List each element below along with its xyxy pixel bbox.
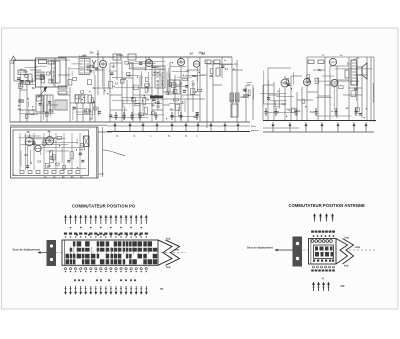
tuner small circle <box>25 74 29 78</box>
wire <box>188 69 200 71</box>
IF can 2 <box>79 59 90 75</box>
PO dots row 1 <box>76 234 78 236</box>
wire <box>336 66 338 118</box>
tube V8 <box>331 79 338 86</box>
wire <box>284 88 286 120</box>
if cluster 1 <box>94 107 97 110</box>
svg-text:MB: MB <box>341 284 345 288</box>
svg-text:bob.: bob. <box>344 264 349 267</box>
tube V5 <box>281 79 289 87</box>
bottom bus rail 2 left <box>10 124 107 126</box>
mixer cluster <box>81 91 84 94</box>
bottom bus rail 2 right <box>263 127 299 129</box>
wire <box>267 68 269 120</box>
svg-text:1M: 1M <box>131 98 134 100</box>
svg-text:10p: 10p <box>286 109 291 111</box>
wire <box>133 67 146 69</box>
wire <box>213 84 222 86</box>
wire <box>69 87 71 122</box>
wire <box>103 68 105 95</box>
wire <box>337 79 349 81</box>
wire long <box>150 98 205 100</box>
transistor q1 <box>92 60 96 64</box>
wire <box>116 57 118 80</box>
wire <box>152 74 163 76</box>
speaker LS1 <box>357 67 362 75</box>
wire <box>200 74 207 76</box>
wire <box>324 57 326 120</box>
out cluster 2 <box>351 91 356 97</box>
svg-text:68p: 68p <box>170 109 175 111</box>
power box bottom contact row <box>20 171 24 174</box>
ANT switch band outline <box>309 239 337 265</box>
power box inner outline <box>13 130 89 175</box>
svg-text:22n: 22n <box>23 71 28 73</box>
svg-text:22n: 22n <box>89 118 94 120</box>
svg-text:Tous: Tous <box>251 126 257 128</box>
if cluster 2 <box>144 84 149 86</box>
wire <box>245 85 247 122</box>
wire <box>330 65 349 67</box>
wire <box>301 87 303 120</box>
svg-text:C12: C12 <box>193 92 198 94</box>
PO chevron break <box>158 240 172 265</box>
wire <box>263 103 285 105</box>
wire <box>30 69 41 71</box>
rectifier disc <box>35 145 41 151</box>
ANT band contact cluster <box>314 245 334 259</box>
ANT bottom arrow row <box>313 283 315 292</box>
svg-text:1M: 1M <box>123 79 126 81</box>
IF can 1 <box>36 95 43 112</box>
resistor col E <box>216 68 220 76</box>
svg-text:1n5: 1n5 <box>90 66 95 68</box>
wire <box>297 99 313 101</box>
tuner cluster a <box>46 72 49 75</box>
wire <box>13 59 70 61</box>
hatch box C <box>55 100 67 110</box>
ANT top arrow row <box>314 214 316 222</box>
svg-text:10p: 10p <box>21 83 26 85</box>
power box internal vertical wires <box>19 133 21 170</box>
wire <box>291 75 302 77</box>
wire <box>313 69 325 71</box>
wire <box>20 109 36 111</box>
top bus wire <box>58 56 232 58</box>
wire <box>121 60 123 122</box>
wire <box>268 67 291 69</box>
wire <box>318 95 330 97</box>
wire <box>139 75 141 122</box>
wire <box>162 57 164 122</box>
power box wire to right <box>98 131 112 133</box>
wire <box>221 57 223 78</box>
power box outer outline <box>11 127 99 178</box>
wire <box>349 87 362 89</box>
wire <box>110 109 127 111</box>
wire <box>132 62 134 122</box>
wire <box>366 57 368 120</box>
PO bottom arrow row <box>65 286 67 294</box>
bottom bus rail 1 <box>10 121 250 123</box>
wire <box>20 89 27 91</box>
svg-text:C12: C12 <box>37 161 42 163</box>
wire <box>370 57 372 122</box>
input wire loop <box>14 61 35 82</box>
wire <box>58 94 70 96</box>
svg-text:COMMUTATEUR POSITION ANTENNE: COMMUTATEUR POSITION ANTENNE <box>289 203 366 208</box>
svg-text:C12: C12 <box>310 112 315 114</box>
wire <box>180 67 182 122</box>
wire <box>95 87 110 89</box>
wire <box>95 69 104 71</box>
bottom bus rail 2 <box>107 125 250 127</box>
wire <box>329 66 331 120</box>
power box parts <box>52 155 55 160</box>
resistor pair striped <box>230 93 234 102</box>
wire <box>373 57 375 122</box>
tube V4 <box>193 61 199 67</box>
wire <box>273 82 275 120</box>
svg-text:bob.: bob. <box>166 237 171 240</box>
wire <box>199 57 201 122</box>
wire <box>126 80 128 103</box>
wire <box>361 76 363 118</box>
wire <box>343 94 362 96</box>
wire <box>163 91 175 93</box>
wire <box>236 60 238 122</box>
coil L1 <box>18 70 26 75</box>
wire <box>348 57 350 120</box>
wire <box>263 84 274 86</box>
wire <box>170 84 181 86</box>
bottom bus rail 1 right <box>263 120 376 122</box>
wire <box>46 95 48 122</box>
resistor R1 <box>28 74 32 82</box>
svg-text:Sens de déplacement: Sens de déplacement <box>13 248 41 252</box>
wire <box>157 80 159 110</box>
wire <box>181 94 200 96</box>
PO mounting bracket <box>47 240 57 266</box>
wire <box>325 84 337 86</box>
output transformer <box>351 60 357 85</box>
tube V3 <box>177 58 184 65</box>
wire <box>296 92 298 120</box>
svg-text:4f: 4f <box>322 278 324 281</box>
wire <box>19 78 21 122</box>
tube V2 <box>145 59 152 66</box>
wire <box>94 75 96 122</box>
wire <box>163 104 170 106</box>
IF can 4 <box>168 80 180 94</box>
wire <box>307 91 318 93</box>
wire <box>122 77 133 79</box>
svg-text:22n: 22n <box>90 53 95 55</box>
wire <box>231 57 233 118</box>
wire <box>355 74 367 76</box>
ANT pointer arrow <box>275 249 293 251</box>
svg-text:bob.: bob. <box>166 266 171 269</box>
tube V1 <box>99 60 106 67</box>
wire <box>110 62 122 64</box>
right caps <box>265 108 267 111</box>
wire <box>152 109 163 111</box>
svg-text:22n: 22n <box>24 155 29 157</box>
filter box sections <box>44 95 53 112</box>
ANT band top circles <box>311 240 314 243</box>
resistor pair B <box>58 86 67 89</box>
det cluster 1 <box>173 89 177 93</box>
capacitor marks row mid <box>115 112 117 115</box>
svg-text:Sens de déplacement: Sens de déplacement <box>247 247 273 250</box>
svg-text:bob.: bob. <box>345 236 350 239</box>
svg-text:gamme: gamme <box>251 130 259 132</box>
if cluster 3 <box>135 103 140 106</box>
IF can 3 <box>155 66 165 88</box>
resistor trio R5-R7 <box>75 95 79 103</box>
wire <box>145 57 147 70</box>
wire <box>192 80 194 112</box>
wire <box>306 57 308 120</box>
wire <box>110 94 122 96</box>
capacitor C2 <box>18 99 24 101</box>
wire <box>26 80 28 122</box>
svg-text:PB: PB <box>160 288 164 291</box>
PO dots row 2 <box>74 279 76 281</box>
PO switch band outline <box>62 240 158 265</box>
ANT mounting bracket <box>293 237 303 267</box>
wire <box>262 85 264 120</box>
wire <box>252 85 254 120</box>
oscillator coil loop <box>36 58 67 87</box>
wire <box>174 75 176 122</box>
resistor row D <box>205 60 211 64</box>
wire <box>317 77 319 120</box>
svg-text:1M: 1M <box>146 100 149 102</box>
af cluster <box>210 69 213 74</box>
top box 2 <box>128 54 136 60</box>
wire <box>307 56 374 58</box>
wire <box>40 74 42 122</box>
wire <box>268 94 280 96</box>
mains transformer <box>84 136 90 147</box>
bus tick components <box>114 122 116 132</box>
ANT chevron break <box>336 239 348 265</box>
wire <box>47 104 58 106</box>
top box 1 <box>113 54 121 60</box>
wire <box>151 68 153 122</box>
box F <box>231 104 238 117</box>
ANT center dashed line <box>303 249 308 251</box>
ANT below-band contacts <box>313 266 315 268</box>
svg-text:33o: 33o <box>193 76 198 78</box>
wire <box>290 76 292 120</box>
wire <box>109 63 111 122</box>
wire <box>207 63 232 65</box>
IF can left <box>52 61 61 83</box>
svg-text:7b: 7b <box>27 130 30 134</box>
ANT band bottom marks <box>313 260 315 262</box>
svg-text:suite: suite <box>355 246 361 249</box>
PO top arrow row <box>65 216 67 225</box>
variable capacitor CV1 <box>38 88 46 98</box>
PO band divider <box>64 240 66 265</box>
det cluster 2 <box>174 99 179 101</box>
PO pointer arrow <box>38 252 47 254</box>
wire <box>10 62 14 64</box>
tube V7 <box>329 58 336 65</box>
right top resistors <box>308 60 314 64</box>
wire <box>206 60 208 128</box>
tube V6 <box>303 78 310 85</box>
transformer T1 <box>35 72 44 79</box>
tube V10 <box>45 137 53 145</box>
tuner cluster b <box>29 110 34 114</box>
capacitor C9 <box>243 94 249 96</box>
svg-text:COMMUTATEUR POSITION PO: COMMUTATEUR POSITION PO <box>72 204 136 209</box>
PO tick row under arrows <box>70 227 72 229</box>
bottom bus rail 3 right <box>263 131 374 133</box>
PO below-band contacts <box>64 268 66 270</box>
wire <box>187 57 189 122</box>
out cluster 1 <box>287 78 289 85</box>
wire <box>58 74 70 76</box>
PO band center dashed line <box>56 252 63 254</box>
wire <box>70 102 95 104</box>
svg-text:suite: suite <box>174 249 180 252</box>
dark bar component <box>150 96 163 99</box>
wire <box>97 50 99 95</box>
svg-text:68p: 68p <box>318 70 323 72</box>
wire <box>212 60 214 122</box>
wire <box>169 62 171 92</box>
wire <box>232 69 243 71</box>
antenna symbol <box>11 56 16 61</box>
power box right column lines <box>96 127 98 178</box>
wire <box>133 94 152 96</box>
wire <box>140 87 152 89</box>
PO contact row above band <box>64 233 67 235</box>
bottom bus rail 3 <box>107 131 250 133</box>
wire <box>9 60 11 122</box>
tube V9 <box>25 137 33 145</box>
PO band contacts <box>66 254 70 259</box>
ANT contact rows above band <box>311 231 314 233</box>
svg-text:33o: 33o <box>119 55 124 57</box>
af cluster lower <box>248 90 250 96</box>
